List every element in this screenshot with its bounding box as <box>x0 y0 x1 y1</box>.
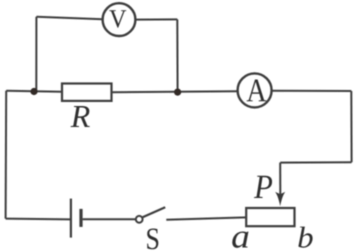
label A (ammeter) <box>247 80 267 102</box>
wire resistor to ammeter <box>112 91 238 92</box>
wire top horizontal to voltmeter <box>36 17 102 20</box>
wire left vertical (battery branch) <box>5 91 8 219</box>
wire wiper vertical stem <box>279 163 281 194</box>
wire voltmeter to right corner <box>135 18 177 20</box>
label b (terminal b) <box>298 227 312 248</box>
wire horizontal to wiper branch <box>280 161 351 163</box>
wire main horizontal left segment <box>6 91 62 92</box>
junction node A dot <box>30 88 37 95</box>
battery cell (short negative plate) <box>79 209 82 227</box>
switch S pivot circle <box>136 216 143 223</box>
label V (voltmeter) <box>109 10 126 27</box>
label S (switch) <box>147 228 158 249</box>
wire right vertical down to node B <box>176 19 178 92</box>
voltmeter U1 circle <box>103 3 136 36</box>
wire ammeter to right edge <box>272 90 352 92</box>
junction node B dot <box>174 89 181 96</box>
wiper arrowhead P <box>275 192 285 206</box>
label P (wiper) <box>254 176 272 198</box>
wire node A up to top loop <box>34 17 36 92</box>
resistor R body <box>62 84 112 101</box>
rheostat (potentiometer) body a-b <box>246 208 294 226</box>
switch S blade <box>143 207 166 217</box>
label R (resistor) <box>71 106 90 127</box>
wire right edge vertical <box>350 91 352 162</box>
wire bottom left horizontal to battery <box>6 218 70 221</box>
wire battery to switch <box>83 218 136 220</box>
wire switch to rheostat terminal a <box>166 217 246 219</box>
ammeter U2 circle <box>238 73 272 107</box>
label a (terminal a) <box>232 231 248 247</box>
battery cell (long positive plate) <box>70 199 72 238</box>
